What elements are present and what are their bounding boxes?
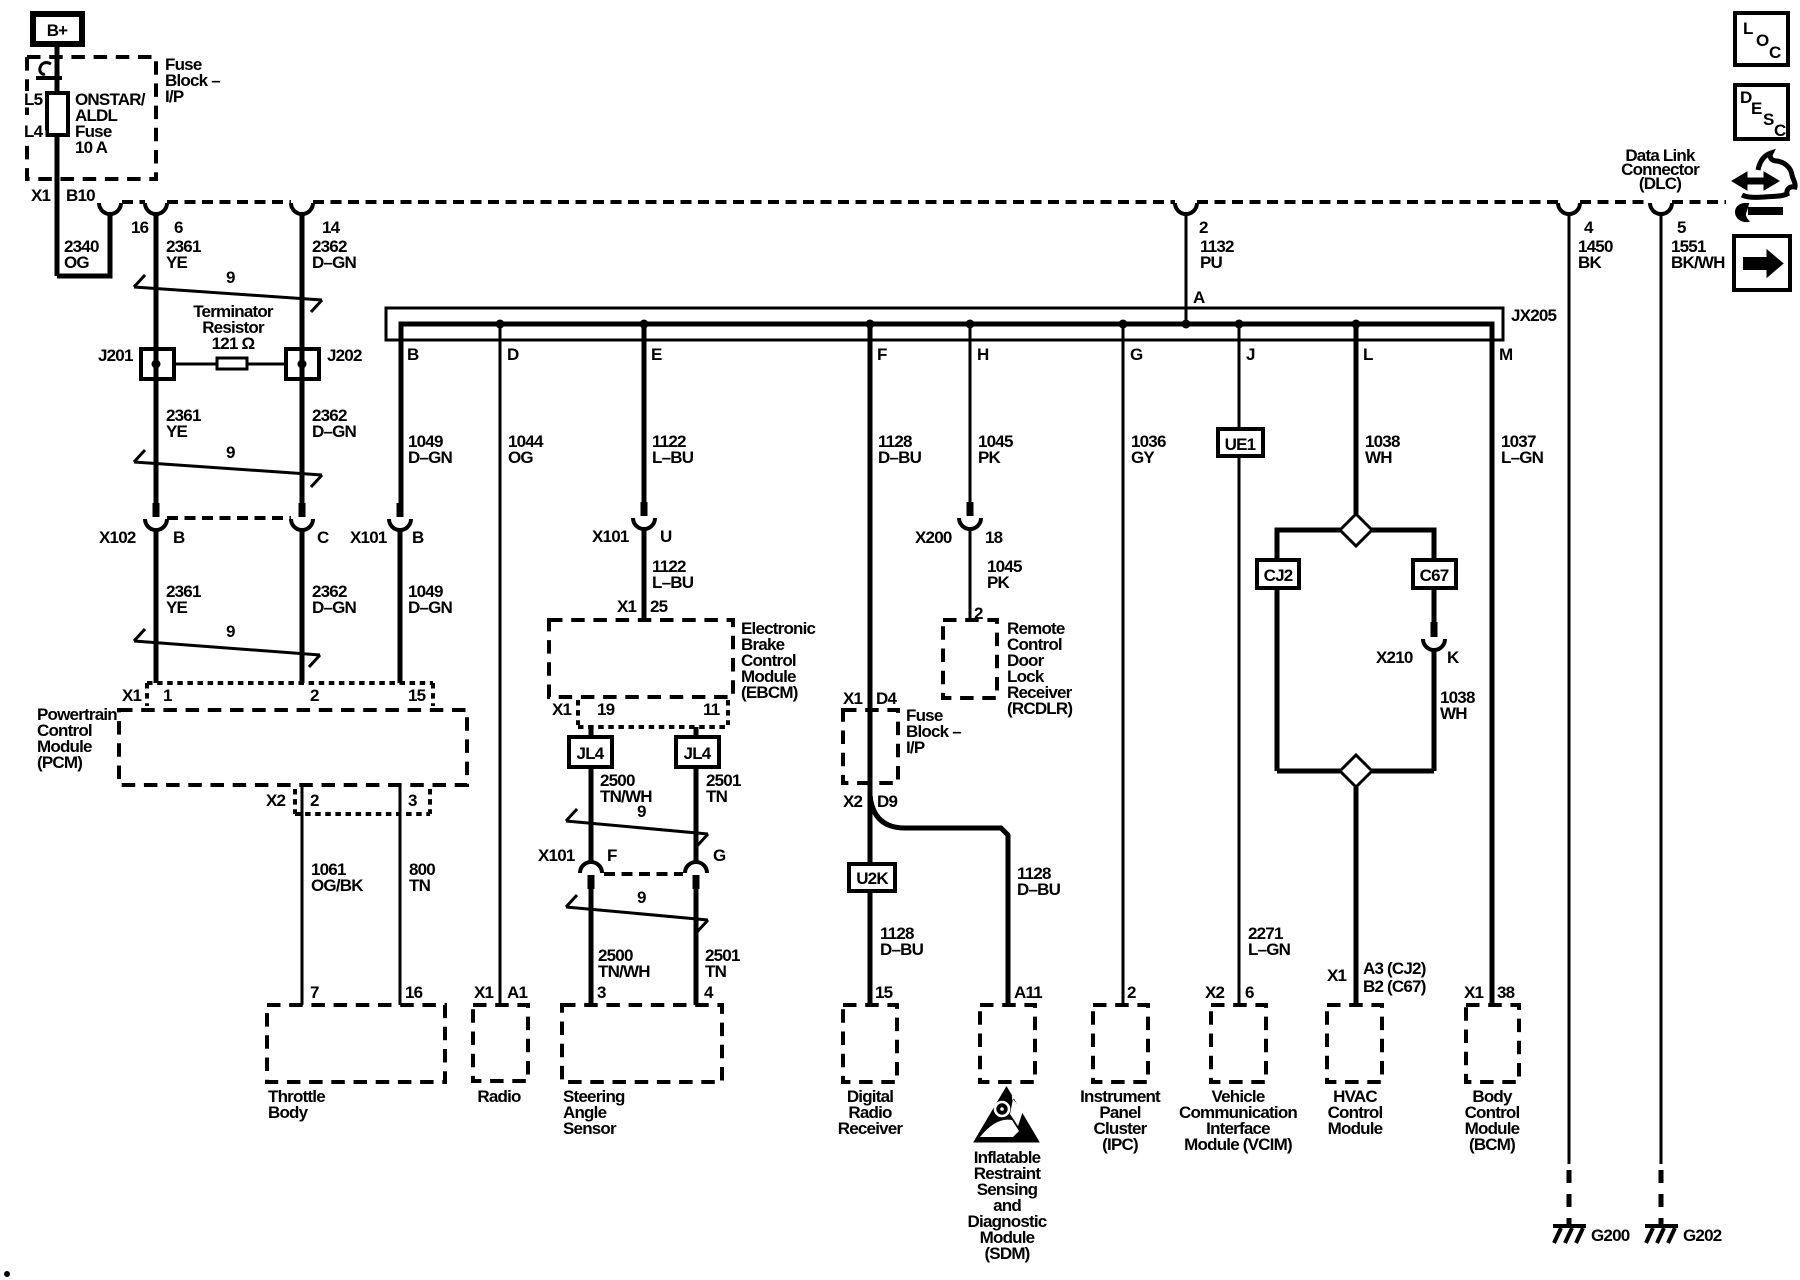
svg-text:(RCDLR): (RCDLR) (1007, 699, 1072, 718)
svg-text:GY: GY (1131, 448, 1155, 467)
svg-text:JX205: JX205 (1511, 306, 1557, 325)
svg-text:Sensor: Sensor (563, 1119, 617, 1138)
svg-text:L5: L5 (24, 90, 43, 109)
svg-text:C67: C67 (1420, 566, 1449, 585)
svg-text:A1: A1 (507, 983, 527, 1002)
svg-text:TN: TN (705, 962, 727, 981)
svg-text:F: F (607, 846, 617, 865)
svg-text:YE: YE (166, 253, 188, 272)
svg-text:2: 2 (1127, 983, 1136, 1002)
svg-text:S: S (1763, 110, 1774, 129)
svg-text:6: 6 (174, 218, 183, 237)
svg-text:18: 18 (985, 528, 1003, 547)
svg-text:X1: X1 (31, 186, 51, 205)
svg-text:(PCM): (PCM) (37, 753, 82, 772)
svg-text:2: 2 (1199, 218, 1208, 237)
svg-text:X102: X102 (99, 528, 136, 547)
svg-text:Body: Body (268, 1103, 309, 1122)
svg-text:X1: X1 (1327, 966, 1347, 985)
svg-text:J201: J201 (98, 346, 133, 365)
svg-text:C: C (1769, 43, 1781, 62)
svg-text:D–GN: D–GN (312, 253, 357, 272)
svg-text:D–GN: D–GN (408, 598, 453, 617)
svg-text:X2: X2 (843, 792, 863, 811)
svg-text:9: 9 (226, 443, 235, 462)
svg-text:X2: X2 (266, 791, 286, 810)
svg-text:3: 3 (408, 791, 417, 810)
svg-text:L4: L4 (24, 122, 44, 141)
svg-text:PK: PK (987, 573, 1011, 592)
svg-text:G: G (713, 846, 726, 865)
svg-text:M: M (1499, 345, 1513, 364)
svg-text:B: B (173, 528, 185, 547)
svg-text:B: B (412, 528, 424, 547)
svg-text:Module (VCIM): Module (VCIM) (1184, 1135, 1292, 1154)
svg-text:(EBCM): (EBCM) (741, 683, 798, 702)
svg-text:D–GN: D–GN (312, 598, 357, 617)
svg-text:D–BU: D–BU (1017, 880, 1061, 899)
svg-text:BK: BK (1578, 253, 1602, 272)
svg-text:A11: A11 (1014, 983, 1042, 1002)
svg-text:E: E (1751, 99, 1762, 118)
svg-text:U: U (660, 527, 672, 546)
svg-text:B2 (C67): B2 (C67) (1363, 977, 1426, 996)
svg-text:2: 2 (310, 686, 319, 705)
svg-text:D–GN: D–GN (408, 448, 453, 467)
svg-text:7: 7 (310, 983, 319, 1002)
svg-text:YE: YE (166, 422, 188, 441)
svg-text:6: 6 (1245, 983, 1254, 1002)
svg-text:X1: X1 (617, 597, 637, 616)
svg-text:15: 15 (875, 983, 893, 1002)
svg-text:J: J (1246, 345, 1255, 364)
svg-text:G200: G200 (1591, 1226, 1630, 1245)
svg-text:(IPC): (IPC) (1102, 1135, 1138, 1154)
svg-text:121 Ω: 121 Ω (212, 334, 255, 353)
svg-text:(DLC): (DLC) (1639, 174, 1681, 193)
svg-text:TN/WH: TN/WH (598, 962, 650, 981)
svg-text:E: E (651, 345, 662, 364)
svg-text:JL4: JL4 (684, 744, 712, 763)
svg-text:CJ2: CJ2 (1264, 566, 1293, 585)
svg-text:(SDM): (SDM) (984, 1244, 1029, 1263)
svg-text:G: G (1130, 345, 1143, 364)
svg-text:A: A (1193, 288, 1205, 307)
svg-text:JL4: JL4 (577, 744, 605, 763)
svg-text:(BCM): (BCM) (1469, 1135, 1515, 1154)
svg-text:H: H (977, 345, 989, 364)
svg-text:16: 16 (131, 218, 149, 237)
svg-text:BK/WH: BK/WH (1671, 253, 1725, 272)
svg-text:X1: X1 (843, 689, 863, 708)
svg-text:X1: X1 (552, 700, 572, 719)
svg-text:L–GN: L–GN (1248, 940, 1291, 959)
svg-text:Receiver: Receiver (838, 1119, 904, 1138)
svg-text:O: O (1756, 31, 1769, 50)
svg-text:1: 1 (163, 686, 172, 705)
svg-text:16: 16 (405, 983, 423, 1002)
svg-text:10 A: 10 A (75, 138, 108, 157)
svg-text:F: F (877, 345, 887, 364)
svg-text:X1: X1 (122, 686, 142, 705)
svg-text:TN: TN (706, 787, 728, 806)
svg-text:U2K: U2K (856, 869, 889, 888)
svg-text:25: 25 (650, 597, 668, 616)
svg-text:PU: PU (1200, 253, 1223, 272)
svg-text:K: K (1447, 648, 1460, 667)
svg-text:OG/BK: OG/BK (311, 876, 364, 895)
svg-text:WH: WH (1365, 448, 1392, 467)
svg-text:X200: X200 (915, 528, 952, 547)
svg-text:4: 4 (1584, 218, 1594, 237)
svg-text:J202: J202 (327, 346, 362, 365)
svg-text:B: B (407, 345, 419, 364)
svg-text:9: 9 (226, 622, 235, 641)
svg-text:5: 5 (1677, 218, 1686, 237)
svg-text:I/P: I/P (906, 738, 925, 757)
svg-text:D–BU: D–BU (878, 448, 922, 467)
svg-text:15: 15 (408, 686, 426, 705)
svg-text:D9: D9 (877, 792, 897, 811)
svg-text:38: 38 (1497, 983, 1515, 1002)
svg-text:G202: G202 (1683, 1226, 1722, 1245)
svg-text:L–GN: L–GN (1501, 448, 1544, 467)
svg-text:L: L (1743, 19, 1753, 38)
svg-text:X2: X2 (1205, 983, 1225, 1002)
svg-text:11: 11 (703, 700, 720, 719)
svg-text:C: C (1774, 121, 1786, 140)
svg-text:I/P: I/P (165, 87, 184, 106)
svg-text:14: 14 (322, 218, 341, 237)
svg-text:9: 9 (637, 802, 646, 821)
svg-text:B+: B+ (47, 21, 68, 40)
svg-text:X1: X1 (1464, 983, 1484, 1002)
svg-text:D–GN: D–GN (312, 422, 357, 441)
svg-text:YE: YE (166, 598, 188, 617)
svg-text:A3 (CJ2): A3 (CJ2) (1363, 959, 1426, 978)
svg-text:OG: OG (508, 448, 533, 467)
svg-text:2: 2 (310, 791, 319, 810)
svg-text:TN: TN (409, 876, 431, 895)
svg-text:L–BU: L–BU (652, 448, 694, 467)
svg-text:X210: X210 (1376, 648, 1413, 667)
svg-text:WH: WH (1440, 704, 1467, 723)
svg-text:X101: X101 (592, 527, 629, 546)
svg-text:Radio: Radio (477, 1087, 521, 1106)
svg-text:D: D (507, 345, 519, 364)
svg-text:L–BU: L–BU (652, 573, 694, 592)
svg-text:UE1: UE1 (1225, 435, 1256, 454)
svg-text:D4: D4 (876, 689, 897, 708)
svg-text:PK: PK (978, 448, 1002, 467)
svg-text:Module: Module (1328, 1119, 1383, 1138)
svg-text:OG: OG (64, 253, 89, 272)
svg-text:4: 4 (704, 983, 714, 1002)
svg-text:X1: X1 (474, 983, 494, 1002)
svg-text:3: 3 (597, 983, 606, 1002)
svg-text:9: 9 (637, 888, 646, 907)
svg-text:X101: X101 (538, 846, 575, 865)
svg-text:D–BU: D–BU (880, 940, 924, 959)
svg-text:L: L (1363, 345, 1373, 364)
svg-text:9: 9 (226, 268, 235, 287)
svg-text:C: C (317, 528, 329, 547)
svg-text:X101: X101 (350, 528, 387, 547)
svg-text:B10: B10 (66, 186, 95, 205)
svg-text:19: 19 (597, 700, 615, 719)
